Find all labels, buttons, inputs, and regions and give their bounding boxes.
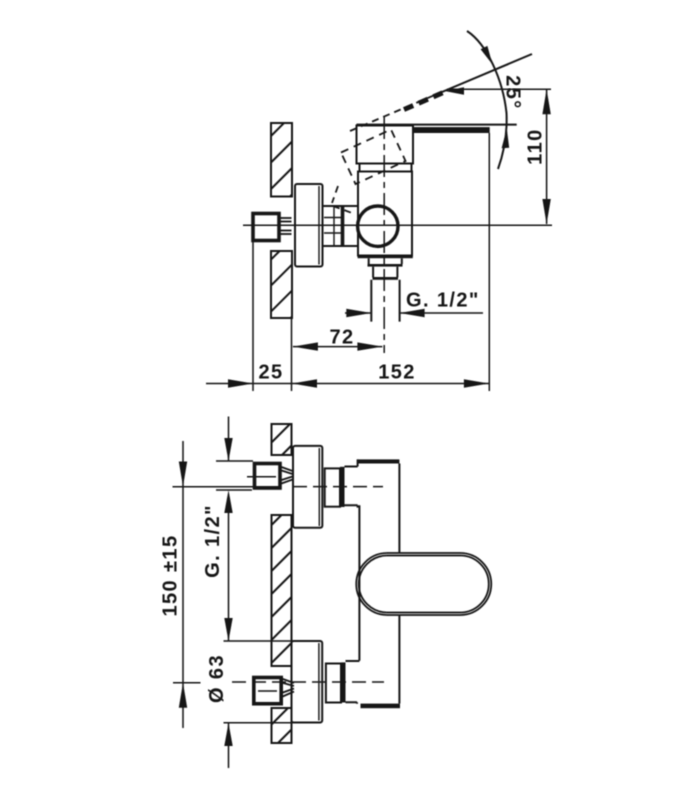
svg-text:25°: 25° bbox=[502, 75, 524, 109]
svg-text:72: 72 bbox=[329, 327, 354, 349]
svg-text:G. 1/2": G. 1/2" bbox=[406, 290, 480, 312]
svg-text:110: 110 bbox=[525, 128, 547, 164]
svg-text:G. 1/2": G. 1/2" bbox=[202, 504, 224, 578]
svg-text:152: 152 bbox=[378, 362, 416, 384]
svg-text:25: 25 bbox=[258, 362, 283, 384]
svg-text:150 ±15: 150 ±15 bbox=[160, 535, 182, 617]
svg-text:Ø 63: Ø 63 bbox=[206, 654, 228, 703]
